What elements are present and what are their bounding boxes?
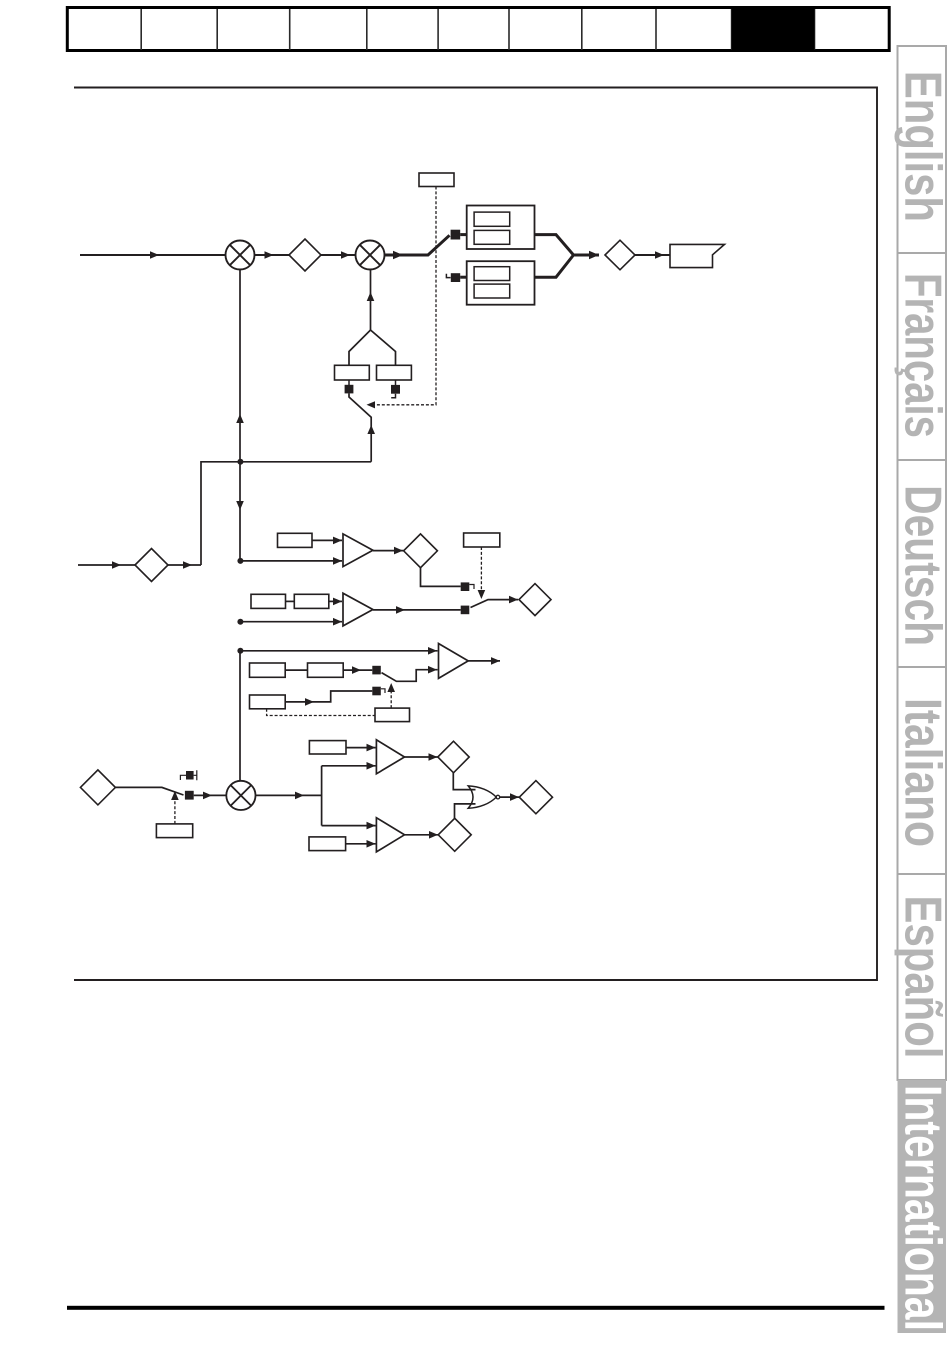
arrow into T4 upper [367,744,376,752]
wire T3 output [468,660,500,662]
open contact hook B [446,274,450,278]
wire L1 to T5 lower input [346,843,376,845]
svg-text:English: English [895,71,950,222]
wire D2 to output tag [635,254,670,256]
wire T4 to diamond D7 [405,756,438,758]
parameter box P1 (switch control) [419,173,454,187]
dotted control line from P1 down [374,187,436,405]
arrow control up on lever S3 [387,683,395,692]
arrow into T3 lower [428,666,437,674]
function box A [467,206,535,250]
arrow into D5 [509,596,518,604]
wire X3 output to split [256,794,322,796]
arrow into D7 [429,753,438,761]
arrow T3 out [491,657,500,665]
arrow control down on switch [478,590,486,599]
summing junction X1 [226,241,255,270]
svg-text:Deutsch: Deutsch [895,485,950,646]
sidebar tab Italiano [898,667,947,874]
comparator T4 [376,740,404,774]
box A inner field 2 [474,230,510,244]
diagram frame (top, right, bottom edges) [74,88,877,981]
wire D1 to X2 [321,254,356,256]
svg-text:Español: Español [895,896,950,1059]
ramp box F1 [335,365,370,380]
wire node N1 horizontal [201,462,371,565]
wire OR to diamond D9 [500,796,519,798]
comparator T2 [343,593,373,626]
output tag shape [670,244,725,267]
arrow up into X1 [236,414,244,423]
arrow up on lever branch [367,425,375,434]
arrow on main input [150,251,159,259]
open contact hook F2 [391,394,395,398]
wire X2 output thick to switch lever [384,235,449,255]
parameter box E1 (enable control) [156,824,192,838]
open contact hook S4 [381,689,385,693]
dashed control from G4 up [390,688,392,708]
wire contact to X3 [194,794,227,796]
parameter box L1 [309,837,346,851]
open contact hook S1 [469,585,474,590]
diamond D3 reference select [135,549,168,582]
thick wires boxes converge to diamond D2 [535,235,600,278]
contact under F1 [345,385,354,394]
OR gate output bubble [496,795,500,799]
parameter box R2 (switch control) [464,533,500,547]
mode switch lever [349,393,371,461]
arrow into D9 [510,793,519,801]
switch contact S1 (open) [461,582,470,591]
node N3 junction dot [237,619,243,625]
arrow into T5 upper [367,822,376,830]
ramp box F2 [377,365,412,380]
switch contact upper (to box A) [451,230,461,240]
arrow into T2 lower [333,618,342,626]
switch lever S2 to diamond D5 [471,600,519,608]
diamond D1 [289,239,321,271]
stub F1 box to contact [349,380,396,386]
wire split to comparator T4 lower input [322,765,376,767]
wire N4 to amplifier T3 upper input [240,650,438,652]
arrow into S3 [352,666,361,674]
arrow converge to D2 [589,251,599,259]
wire main input [80,254,226,256]
arrow D1 to X2 [341,251,350,259]
svg-text:Français: Français [895,273,950,438]
node N2 junction dot [237,558,243,564]
open contact hook upper-left [180,775,186,780]
diamond D2 [605,240,635,270]
comparator T1 [343,534,373,567]
dashed wire G3 to G4 [267,709,375,716]
contact under F2 (open) [391,385,400,394]
diamond D6 bottom input [80,770,115,805]
switch contact lower (to box B, open) [451,273,460,282]
wire T5 to diamond D8 [405,834,439,836]
enable contact upper (open) [186,771,194,780]
wire G2 to contact S3 [343,669,372,671]
arrow X2 output [393,251,403,259]
switch contact S2 [461,606,470,615]
wire input to D3 [78,564,135,566]
arrow into T1 lower [333,557,342,565]
wire D7 to OR gate upper input [453,773,475,790]
diamond D8 [438,818,471,851]
diamond D5 [519,584,551,616]
diamond D9 [519,781,552,814]
wire D4 down to switch contact S1 [421,568,461,587]
box A inner field 1 [474,212,510,226]
switch contact S3 [372,666,381,675]
arrow into T2 upper [333,598,342,606]
switch lever S3 to T3 lower input [382,670,438,682]
arrow into D8 [429,831,438,839]
wire G1 to G2 [285,669,307,671]
comparator T5 [376,818,404,852]
node N4 junction dot [237,648,243,654]
multiplier junction X3 [226,781,255,810]
wire contact to box A [460,233,467,236]
parameter box R4 [294,594,329,608]
amplifier T3 [439,644,469,679]
wire G3 to contact S4 [285,691,372,702]
sidebar tab International (active) [898,1080,947,1333]
wire R3 to R4 [286,600,295,602]
arrow into X3 [203,792,212,800]
sidebar tab Deutsch [898,460,947,667]
node N1 junction dot [237,459,243,465]
wire contact to box B [460,276,467,279]
arrow X1 to D1 [265,251,274,259]
wire D8 to OR gate lower input [455,804,476,818]
svg-text:International: International [895,1085,950,1331]
open contact tick upper-right [194,770,197,780]
arrow into T5 lower [367,840,376,848]
arrow X3 out [295,792,304,800]
arrow up into X2 [367,292,375,301]
function box B [467,261,535,305]
wire split to comparator T5 upper input [322,825,376,827]
wire N2 to comparator T1 lower input [240,560,342,562]
wire main vertical into X3 [239,651,241,781]
parameter box G2 [308,663,344,677]
header table outer border [67,8,889,51]
arrow into D4 [394,547,403,555]
wire T1 to diamond D4 [373,550,404,552]
sidebar tab Francais [898,253,947,460]
sidebar tab English [898,46,947,253]
diamond D4 [404,534,438,568]
arrow T2 out [396,606,405,614]
wire X1 to diamond D1 [254,254,289,256]
parameter box G1 [250,663,286,677]
arrow into T3 upper [428,647,437,655]
arrow D2 to output tag [655,251,664,259]
enable contact lower [185,791,194,800]
parameter box R1 [278,533,313,547]
arrow into T1 upper [333,537,342,545]
arrow control up on enable lever [171,791,179,800]
wire R4 to comparator T2 upper input [329,600,342,602]
parameter box G4 (switch control) [375,708,410,722]
bottom rule [67,1306,885,1310]
arrow D3 out [183,561,192,569]
diamond D7 [438,741,469,773]
wire X1 down to node N1 [239,269,241,561]
parameter box R3 [251,594,286,608]
OR gate [468,786,496,808]
dashed control from E1 up [174,796,176,824]
wire U1 to T4 upper input [346,747,376,749]
svg-text:Italiano: Italiano [895,698,950,847]
arrow down below N1 [236,501,244,510]
parameter box G3 [250,695,286,709]
multiplier junction X2 [356,241,385,270]
sidebar tab Espanol [898,874,947,1080]
split riser [321,766,323,826]
box B inner field 2 [474,284,510,298]
wire T2 to switch contact S2 [373,609,461,611]
wire N3 to T2 lower input [240,621,342,623]
dashed control from R2 down [480,547,482,594]
arrow into T4 lower [367,762,376,770]
wire D3 to riser [168,564,201,566]
wire D6 to enable switch [115,787,183,795]
header table filled black cell [732,7,815,50]
wire R1 to T1 upper input [312,539,342,541]
wire X2 down to ramp fork [370,269,372,330]
parameter box U1 [309,741,346,754]
header table cell dividers [141,9,814,50]
arrow into D3 [112,561,121,569]
ramp fork branches [349,330,396,365]
switch contact S4 (open) [372,687,381,696]
arrow control onto mode switch [367,401,376,408]
arrow on G3 wire [305,698,314,706]
box B inner field 1 [474,267,510,281]
